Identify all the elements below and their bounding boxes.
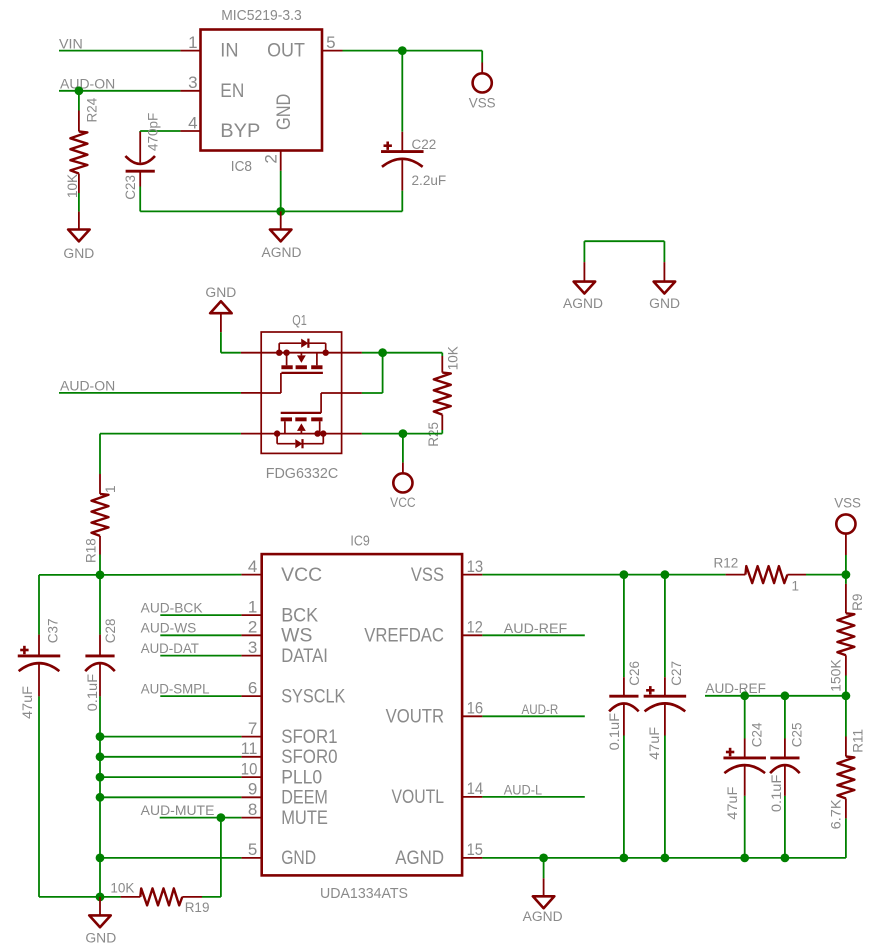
svg-text:MUTE: MUTE xyxy=(281,808,328,829)
svg-text:6: 6 xyxy=(248,678,257,697)
svg-text:2: 2 xyxy=(262,154,281,163)
svg-text:AUD-REF: AUD-REF xyxy=(504,621,567,636)
wire R25 to VCC rail xyxy=(362,430,442,434)
svg-text:10K: 10K xyxy=(65,174,80,198)
junction AUD-MUTE / R19 xyxy=(217,813,226,822)
svg-text:Q1: Q1 xyxy=(292,312,307,329)
svg-text:R24: R24 xyxy=(85,97,100,122)
svg-text:470pF: 470pF xyxy=(146,113,161,151)
junction C24 bottom xyxy=(740,854,749,863)
svg-text:VCC: VCC xyxy=(281,565,322,586)
pin1 xyxy=(180,50,200,52)
svg-text:AUD-DAT: AUD-DAT xyxy=(141,641,199,656)
q1-gate-pin xyxy=(241,392,261,394)
op-amp IC8 MIC5219-3.3 regulator xyxy=(180,7,342,175)
pin 13 VSS xyxy=(462,574,482,576)
node AUD-L label xyxy=(504,783,543,798)
wire Q1 drain to R25 xyxy=(362,353,442,356)
wire AUD-DAT to IC9 xyxy=(160,655,241,657)
svg-text:4: 4 xyxy=(188,113,197,132)
pin 15 AGND xyxy=(462,857,482,859)
wire C25 from AUD-REF xyxy=(784,696,786,739)
node AUD-DAT label xyxy=(141,641,199,656)
svg-text:9: 9 xyxy=(248,780,257,799)
svg-text:VSS: VSS xyxy=(834,496,861,511)
pin 7 SFOR1 xyxy=(241,736,261,738)
node AUD-ON label (top) xyxy=(60,77,115,92)
svg-text:7: 7 xyxy=(248,719,257,738)
wire AUD-BCK to IC9 xyxy=(160,614,241,616)
wire C24 from AUD-REF xyxy=(744,696,746,739)
junction AUD-REF / R9 R11 xyxy=(842,691,851,700)
svg-text:GND: GND xyxy=(274,94,295,130)
supply VSS (top) xyxy=(469,63,496,111)
wire C27 from VSS rail xyxy=(664,575,666,678)
pin4 xyxy=(180,130,200,132)
svg-text:GND: GND xyxy=(649,296,680,311)
svg-text:UDA1334ATS: UDA1334ATS xyxy=(320,885,408,902)
ground GND below R24 xyxy=(63,212,94,261)
wire AUD-REF down to R11 xyxy=(845,696,847,737)
junction VCC / Q1 lower xyxy=(399,429,408,438)
transistor Q1b N-MOSFET xyxy=(241,433,342,435)
svg-text:11: 11 xyxy=(241,739,258,758)
wire C26 to AGND rail xyxy=(623,736,625,858)
svg-text:VSS: VSS xyxy=(411,565,444,586)
node AUD-WS label xyxy=(141,621,197,636)
wire AUD-R pin 16 xyxy=(482,715,584,717)
wire C24 to AGND rail xyxy=(744,796,746,858)
svg-text:6.7K: 6.7K xyxy=(828,799,843,829)
wire C25 to AGND rail xyxy=(784,796,786,858)
svg-text:5: 5 xyxy=(248,840,257,859)
svg-text:15: 15 xyxy=(467,840,483,859)
svg-text:AUD-WS: AUD-WS xyxy=(141,621,197,636)
capacitor C24 47uF xyxy=(723,722,766,820)
wire AGND-GND tie xyxy=(584,241,664,262)
resistor R11 6.7K xyxy=(828,729,865,829)
wire C37 to GND rail xyxy=(39,696,100,897)
junction AGND rail at pin 2 xyxy=(276,207,285,216)
svg-text:47uF: 47uF xyxy=(725,787,740,820)
svg-text:R12: R12 xyxy=(714,555,739,570)
svg-text:AGND: AGND xyxy=(395,848,444,869)
wire VIN to IC8 pin 1 xyxy=(59,50,180,52)
ground GND bottom left xyxy=(85,897,116,946)
wire OUT down to C22 xyxy=(401,51,403,132)
junction VCC rail top xyxy=(96,571,105,580)
capacitor C26 0.1uF xyxy=(607,661,642,750)
svg-text:47uF: 47uF xyxy=(20,686,35,719)
wire R9 to AUD-REF rail xyxy=(845,676,847,696)
resistor R24 10K xyxy=(65,97,100,198)
wire gate2 riser xyxy=(362,353,383,393)
wire DEEM to GND rail xyxy=(100,796,241,798)
pin 14 VOUTL xyxy=(462,796,482,798)
wire R12 to VSS corner xyxy=(806,574,846,576)
svg-text:EN: EN xyxy=(220,81,244,102)
svg-text:C23: C23 xyxy=(123,175,138,200)
wire AUD-ON to Q1 gate xyxy=(59,392,241,394)
wire AUD-REF pin 12 xyxy=(482,634,584,636)
pin 11 SFOR0 xyxy=(241,756,261,758)
svg-text:R9: R9 xyxy=(850,594,865,611)
svg-text:GND: GND xyxy=(205,285,236,300)
wire R18 to VCC node xyxy=(99,555,101,575)
wire AUD-L pin 14 xyxy=(482,796,584,798)
svg-text:1: 1 xyxy=(103,485,118,493)
pin 9 DEEM xyxy=(241,796,261,798)
svg-text:SYSCLK: SYSCLK xyxy=(281,686,345,707)
svg-text:C37: C37 xyxy=(45,619,60,644)
wire IC8 pin 5 (OUT) to VSS xyxy=(343,51,483,63)
wire C27 to AGND rail xyxy=(664,736,666,858)
ic8-box xyxy=(201,30,323,151)
svg-text:AUD-ON: AUD-ON xyxy=(60,77,115,92)
svg-text:13: 13 xyxy=(467,557,484,576)
svg-text:47uF: 47uF xyxy=(647,727,662,760)
junction C26 top xyxy=(620,570,629,579)
svg-text:R18: R18 xyxy=(83,538,98,563)
wire AUD-SMPL to IC9 pin 6 xyxy=(160,695,241,697)
svg-text:0.1uF: 0.1uF xyxy=(769,775,784,813)
svg-text:IN: IN xyxy=(220,41,238,62)
op-amp IC9 UDA1334ATS DAC xyxy=(241,532,483,902)
wire Q1 lower source to R18 xyxy=(100,434,241,474)
svg-text:3: 3 xyxy=(248,638,257,657)
wire C22 to AGND rail xyxy=(401,191,403,212)
resistor R18 1 xyxy=(83,474,118,563)
svg-text:GND: GND xyxy=(85,931,116,946)
svg-text:VOUTR: VOUTR xyxy=(386,707,444,728)
node AUD-ON label (Q1) xyxy=(60,379,115,394)
capacitor C23 470pF xyxy=(123,113,161,200)
junction AUD-REF / C24 xyxy=(740,691,749,700)
svg-text:IC8: IC8 xyxy=(231,158,252,175)
resistor R12 1 xyxy=(714,555,807,593)
svg-text:AUD-ON: AUD-ON xyxy=(60,379,115,394)
svg-text:AGND: AGND xyxy=(563,296,603,311)
wire AUD-MUTE down to R19 xyxy=(220,818,222,897)
svg-text:1: 1 xyxy=(248,597,257,616)
svg-text:IC9: IC9 xyxy=(350,532,369,549)
junction PLL0 xyxy=(96,773,105,782)
svg-text:10K: 10K xyxy=(445,346,460,370)
wire R19 right to MUTE riser xyxy=(202,896,221,898)
pin3 xyxy=(180,90,200,92)
svg-text:C27: C27 xyxy=(669,661,684,686)
svg-text:C28: C28 xyxy=(103,619,118,644)
svg-text:2.2uF: 2.2uF xyxy=(412,173,447,188)
resistor R9 150K xyxy=(829,584,865,692)
svg-text:12: 12 xyxy=(467,618,483,637)
svg-text:0.1uF: 0.1uF xyxy=(607,713,622,751)
wire VCC node to C37 xyxy=(39,575,100,635)
svg-text:VSS: VSS xyxy=(469,95,496,110)
junction C27 bottom xyxy=(661,854,670,863)
junction GND bottom xyxy=(96,893,105,902)
ground GND above Q1 xyxy=(205,285,236,332)
wire SFOR1 to GND rail xyxy=(100,736,241,738)
svg-text:VCC: VCC xyxy=(390,495,416,510)
svg-text:C24: C24 xyxy=(749,722,764,747)
svg-text:OUT: OUT xyxy=(267,41,305,62)
svg-text:10: 10 xyxy=(241,759,258,778)
junction C26 bottom xyxy=(620,854,629,863)
junction VSS corner xyxy=(842,570,851,579)
ground GND (middle pair) xyxy=(649,262,680,311)
wire AUD-ON to IC8 pin 3 xyxy=(59,90,180,92)
svg-text:GND: GND xyxy=(281,848,316,869)
capacitor C25 0.1uF xyxy=(769,723,804,813)
pin 12 VREFDAC xyxy=(462,634,482,636)
svg-text:1: 1 xyxy=(792,578,800,593)
svg-text:AGND: AGND xyxy=(262,245,302,260)
svg-text:WS: WS xyxy=(281,626,312,647)
svg-text:FDG6332C: FDG6332C xyxy=(266,465,339,482)
junction drain / gate2 xyxy=(378,348,387,357)
resistor R25 10K xyxy=(426,346,460,446)
svg-text:C26: C26 xyxy=(627,661,642,686)
svg-text:2: 2 xyxy=(248,618,257,637)
svg-text:3: 3 xyxy=(188,73,197,92)
svg-text:DATAI: DATAI xyxy=(281,646,328,667)
wire GND to Q1 upper source xyxy=(221,332,241,353)
pin 3 DATAI xyxy=(241,655,261,657)
ground AGND bottom xyxy=(523,858,563,924)
svg-text:AUD-SMPL: AUD-SMPL xyxy=(141,682,210,697)
wire AUD-WS to IC9 xyxy=(160,634,241,636)
svg-text:8: 8 xyxy=(248,800,257,819)
q1-box xyxy=(261,332,341,453)
wire C28 to GND junction xyxy=(99,696,101,897)
node AUD-REF label (pin 12) xyxy=(504,621,567,636)
wire AGND rail pin 15 xyxy=(482,857,785,859)
svg-text:SFOR1: SFOR1 xyxy=(281,727,337,748)
capacitor C37 47uF xyxy=(18,619,61,719)
junction AGND symbol xyxy=(539,854,548,863)
svg-text:1: 1 xyxy=(188,33,197,52)
svg-text:SFOR0: SFOR0 xyxy=(281,747,337,768)
wire IC8 pin 2 to AGND rail xyxy=(280,171,282,212)
wire GND rail to IC9 pin 5 xyxy=(100,857,241,859)
pin 5 GND xyxy=(241,857,261,859)
wire C23 to AGND rail xyxy=(140,187,402,212)
wire VSS down to R9 xyxy=(845,575,847,584)
junction AUD-ON / R24 xyxy=(75,86,84,95)
wire AUD-ON down to R24 xyxy=(78,91,80,111)
svg-text:VOUTL: VOUTL xyxy=(392,787,445,808)
svg-text:GND: GND xyxy=(63,246,94,261)
capacitor C22 2.2uF xyxy=(381,132,446,191)
wire PLL0 to GND rail xyxy=(100,776,241,778)
transistor Q1a P-MOSFET xyxy=(241,352,342,354)
resistor R19 10K xyxy=(110,880,209,915)
svg-text:BCK: BCK xyxy=(281,605,318,626)
svg-text:150K: 150K xyxy=(829,659,844,692)
wire VCC node to IC9 pin 4 xyxy=(100,574,241,576)
wire VSS net pin 13 xyxy=(482,574,725,576)
svg-text:AUD-BCK: AUD-BCK xyxy=(141,601,203,616)
junction AUD-REF / C25 xyxy=(781,691,790,700)
wire down to VCC xyxy=(402,434,404,463)
junction SFOR0 xyxy=(96,752,105,761)
svg-text:AUD-MUTE: AUD-MUTE xyxy=(141,803,215,818)
node AUD-REF label (rail) xyxy=(705,681,766,696)
node AUD-MUTE label xyxy=(141,803,215,818)
svg-text:C22: C22 xyxy=(412,137,437,152)
svg-text:0.1uF: 0.1uF xyxy=(85,674,100,712)
svg-text:R11: R11 xyxy=(850,729,865,753)
junction OUT / C22 xyxy=(398,46,407,55)
wire VCC rail to C28 xyxy=(99,575,101,635)
pin 10 PLL0 xyxy=(241,776,261,778)
svg-text:DEEM: DEEM xyxy=(281,788,328,809)
svg-text:VIN: VIN xyxy=(59,36,83,51)
svg-text:5: 5 xyxy=(326,33,335,52)
ground AGND below IC8 xyxy=(262,211,302,260)
pin 1 BCK xyxy=(241,614,261,616)
node AUD-SMPL label xyxy=(141,682,210,697)
capacitor C28 0.1uF xyxy=(85,619,118,712)
node VIN label xyxy=(59,36,83,51)
wire R19 left to GND junction xyxy=(100,896,121,898)
svg-text:AUD-R: AUD-R xyxy=(522,702,559,717)
svg-text:16: 16 xyxy=(467,699,484,718)
supply VSS (right) xyxy=(834,496,861,555)
svg-text:AGND: AGND xyxy=(523,909,563,924)
wire AUD-REF rail xyxy=(705,695,846,697)
svg-text:AUD-REF: AUD-REF xyxy=(705,681,766,696)
pin 6 SYSCLK xyxy=(241,695,261,697)
svg-text:BYP: BYP xyxy=(220,121,260,142)
junction C25 bottom xyxy=(781,854,790,863)
wire IC8 pin 4 to C23 xyxy=(140,131,180,132)
pin 2 WS xyxy=(241,634,261,636)
capacitor C27 47uF xyxy=(644,661,687,760)
svg-text:AUD-L: AUD-L xyxy=(504,783,543,798)
wire SFOR0 to GND rail xyxy=(100,756,241,758)
ic9-box xyxy=(262,554,462,875)
pin5 xyxy=(322,50,343,52)
pin2 xyxy=(280,151,282,171)
svg-text:MIC5219-3.3: MIC5219-3.3 xyxy=(221,7,302,24)
pin 16 VOUTR xyxy=(462,715,482,717)
ground AGND (middle pair) xyxy=(563,262,603,311)
svg-text:VREFDAC: VREFDAC xyxy=(364,626,444,647)
wire AUD-MUTE to IC9 pin 8 xyxy=(160,817,242,819)
pin 4 VCC xyxy=(241,574,261,576)
wire up to VSS supply xyxy=(845,555,847,575)
q1-gate2-pin xyxy=(342,392,362,394)
transistor Q1 FDG6332C xyxy=(241,312,362,482)
svg-text:14: 14 xyxy=(467,779,484,798)
node AUD-R label xyxy=(522,702,559,717)
junction C27 top xyxy=(661,570,670,579)
svg-text:R19: R19 xyxy=(185,900,210,915)
wire C26 from VSS rail xyxy=(623,575,625,678)
svg-text:C25: C25 xyxy=(790,723,805,748)
junction GND rail pin 5 xyxy=(96,854,105,863)
junction SFOR1 xyxy=(96,732,105,741)
svg-text:PLL0: PLL0 xyxy=(281,767,322,788)
junction DEEM xyxy=(96,793,105,802)
pin 8 MUTE xyxy=(241,817,261,819)
wire R11 to AGND rail xyxy=(785,818,846,858)
node AUD-BCK label xyxy=(141,601,203,616)
svg-text:4: 4 xyxy=(248,557,257,576)
wire R24 to GND xyxy=(78,193,80,212)
svg-text:10K: 10K xyxy=(110,880,134,895)
supply VCC xyxy=(390,463,416,511)
